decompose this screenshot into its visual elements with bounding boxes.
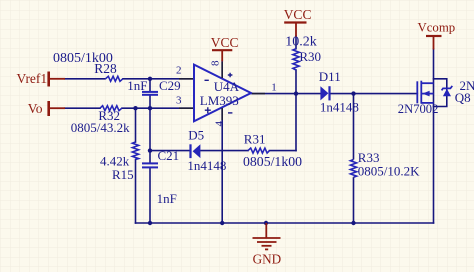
svg-text:1n4148: 1n4148: [187, 158, 226, 173]
svg-text:C21: C21: [158, 148, 180, 163]
svg-text:2N7002: 2N7002: [460, 78, 474, 93]
svg-text:R31: R31: [244, 132, 266, 147]
svg-text:GND: GND: [253, 252, 282, 267]
svg-text:R28: R28: [94, 61, 117, 76]
svg-text:1nF: 1nF: [157, 191, 177, 206]
svg-text:4: 4: [213, 121, 225, 127]
svg-text:2: 2: [176, 64, 182, 76]
svg-text:1nF: 1nF: [127, 78, 147, 93]
svg-text:Vo: Vo: [28, 101, 43, 116]
svg-text:VCC: VCC: [211, 35, 239, 50]
svg-text:R15: R15: [112, 167, 134, 182]
svg-text:C29: C29: [159, 78, 181, 93]
svg-text:2N7002: 2N7002: [398, 102, 439, 116]
svg-text:10.2k: 10.2k: [285, 35, 317, 50]
svg-text:D11: D11: [319, 69, 341, 84]
svg-text:3: 3: [176, 94, 182, 106]
svg-text:1: 1: [271, 82, 277, 94]
svg-text:R30: R30: [299, 49, 321, 64]
svg-text:LM393: LM393: [200, 93, 239, 108]
svg-text:Vcomp: Vcomp: [418, 21, 456, 35]
svg-text:D5: D5: [188, 128, 204, 143]
svg-text:1n4148: 1n4148: [320, 100, 359, 115]
svg-text:VCC: VCC: [284, 7, 312, 22]
svg-text:U4A: U4A: [214, 79, 240, 94]
svg-text:8: 8: [209, 60, 221, 66]
svg-text:0805/43.2k: 0805/43.2k: [71, 120, 130, 135]
svg-text:0805/1k00: 0805/1k00: [243, 154, 302, 169]
svg-text:Vref1: Vref1: [17, 71, 48, 86]
svg-text:0805/10.2K: 0805/10.2K: [358, 164, 420, 179]
